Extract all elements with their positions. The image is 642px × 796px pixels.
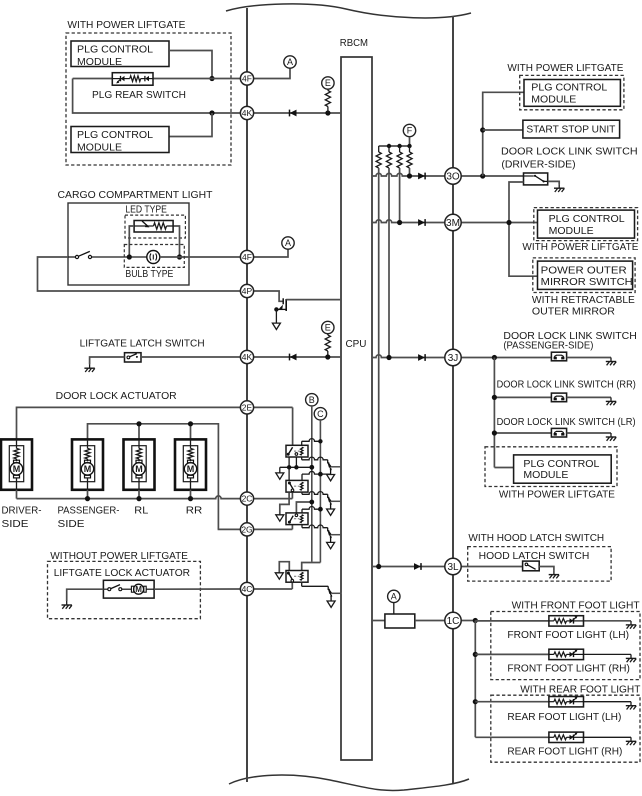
junction dot [209, 76, 214, 81]
node E (top) [322, 77, 334, 89]
RBCM sheet bottom cut curve [229, 775, 469, 790]
connector 2C [240, 492, 253, 505]
wire array drop 1 (to 3L) [378, 168, 380, 567]
svg-text:(DRIVER-SIDE): (DRIVER-SIDE) [501, 160, 575, 171]
wire switch to ground (driver-side) [548, 181, 560, 184]
wire 4K row to CPU [254, 112, 341, 114]
wire K2 pin to ground bus [288, 467, 290, 480]
svg-text:M: M [84, 464, 92, 474]
svg-text:MODULE: MODULE [523, 470, 568, 481]
diode D3 (3O) [418, 173, 425, 180]
wire 4C extension to relay K4 [254, 588, 293, 590]
hood latch switch SW8 [523, 561, 540, 571]
svg-text:M: M [135, 585, 142, 594]
svg-text:RR: RR [186, 506, 203, 517]
svg-text:PLG REAR SWITCH: PLG REAR SWITCH [92, 90, 186, 101]
svg-text:4F: 4F [242, 252, 252, 262]
transistor Q2 [327, 460, 341, 481]
wire C elbow to K4 coil [302, 563, 321, 571]
wire array drop 4 (to 3O) [409, 168, 411, 176]
wire latch switch to 4K [141, 356, 240, 358]
wire hood latch to ground [539, 567, 554, 571]
wire switch to bulb [92, 256, 147, 258]
svg-text:PLG CONTROL: PLG CONTROL [523, 459, 599, 470]
right connector busbar [452, 16, 454, 783]
ground (triangle) K4 stub [275, 573, 283, 579]
wire RH to ground [584, 653, 632, 655]
svg-text:M: M [135, 464, 143, 474]
svg-text:FRONT FOOT LIGHT (RH): FRONT FOOT LIGHT (RH) [507, 664, 630, 675]
svg-text:(PASSENGER-SIDE): (PASSENGER-SIDE) [503, 341, 593, 352]
node E (mid) [322, 321, 334, 333]
svg-text:WITH POWER LIFTGATE: WITH POWER LIFTGATE [499, 489, 615, 500]
PLG rear switch SW1 [112, 73, 153, 86]
svg-text:WITH REAR FOOT LIGHT: WITH REAR FOOT LIGHT [520, 685, 641, 696]
wire 2E drop to relay K1 [292, 407, 294, 445]
front foot light (RH) lamp [549, 649, 584, 659]
svg-text:WITHOUT POWER LIFTGATE: WITHOUT POWER LIFTGATE [50, 551, 188, 562]
door lock actuator M1 (driver-side) [1, 439, 32, 489]
wire LH to ground [584, 620, 632, 622]
connector 2E [240, 401, 253, 414]
wire 2C extension to relay K2 [254, 498, 293, 500]
connector 3L [445, 558, 461, 574]
resistor R-E1 [325, 91, 330, 107]
cargo compartment light box [68, 203, 189, 285]
diode D1 (4K row) [290, 110, 297, 117]
svg-text:1C: 1C [447, 616, 460, 627]
dashed box hood latch switch [468, 547, 611, 582]
svg-text:LED TYPE: LED TYPE [125, 205, 167, 216]
wire PLG control module 2 to node 4K [169, 113, 212, 137]
svg-text:3L: 3L [447, 562, 459, 573]
node A (cargo) [282, 237, 294, 249]
connector 4P [240, 284, 253, 297]
wire 1C row right [461, 620, 475, 622]
svg-text:M: M [13, 464, 21, 474]
box PLG CONTROL MODULE (right mid) [538, 210, 635, 238]
box START STOP UNIT [523, 120, 620, 138]
connector 4F (top) [240, 72, 253, 85]
ground (chassis) driver-side switch [554, 184, 564, 192]
svg-text:WITH HOOD LATCH SWITCH: WITH HOOD LATCH SWITCH [468, 533, 604, 544]
wire K2 coil high to C / Q2 emitter tie [301, 474, 303, 480]
svg-text:OUTER MIRROR: OUTER MIRROR [532, 306, 615, 317]
wire to ground (passenger) [567, 357, 611, 359]
wire K2 pad pin to ground stub [280, 493, 289, 515]
connector 3M [445, 214, 461, 230]
svg-text:RL: RL [134, 506, 148, 517]
node C [314, 408, 326, 420]
wire 2E row [17, 407, 293, 439]
svg-text:M: M [187, 464, 195, 474]
door lock link switch (driver-side) SW4 [524, 173, 548, 185]
svg-text:C: C [317, 409, 324, 419]
connector 1C [445, 612, 461, 628]
svg-text:A: A [287, 57, 293, 67]
svg-text:4P: 4P [242, 286, 253, 296]
svg-text:FRONT FOOT LIGHT (LH): FRONT FOOT LIGHT (LH) [507, 630, 629, 641]
wire C to K3 coil [301, 509, 303, 513]
illumination block [385, 614, 415, 628]
wire bulb to 4F [160, 256, 241, 258]
resistor R-E2 [327, 334, 329, 335]
CPU box U1 [341, 57, 372, 760]
dashed box WITHOUT POWER LIFTGATE [48, 561, 201, 618]
diode D2 (4K row 2) [290, 354, 297, 361]
foot light branch vertical [474, 621, 476, 738]
svg-text:WITH POWER LIFTGATE: WITH POWER LIFTGATE [507, 63, 623, 74]
connector 3O [445, 168, 461, 184]
box PLG CONTROL MODULE (right bottom) [514, 455, 612, 483]
wire rear foot LH row [475, 701, 549, 703]
wire 3L row right [461, 566, 522, 568]
svg-text:WITH POWER LIFTGATE: WITH POWER LIFTGATE [67, 20, 185, 31]
svg-text:PLG CONTROL: PLG CONTROL [77, 130, 153, 141]
svg-text:DRIVER-: DRIVER- [2, 506, 42, 517]
wire to start stop unit [483, 129, 523, 131]
wire LED left leg [129, 226, 134, 257]
door lock link switch (LR) SW7 [551, 428, 566, 437]
wire F stem [409, 137, 411, 146]
rear foot light (LH) lamp [549, 697, 584, 707]
svg-text:3M: 3M [446, 218, 460, 229]
ground (triangle) at Q1 source [272, 323, 280, 329]
svg-text:DOOR LOCK LINK SWITCH (LR): DOOR LOCK LINK SWITCH (LR) [497, 417, 636, 428]
wire K1 coil low to Q2 [301, 457, 303, 460]
bulb lamp [147, 251, 160, 264]
box PLG CONTROL MODULE (right top) [524, 80, 620, 107]
wire 3M row from CPU [372, 220, 445, 223]
junction dot E pull-up [325, 110, 330, 115]
wire CPU to illumination module [372, 620, 385, 622]
svg-text:4K: 4K [242, 352, 253, 362]
dashed box rear foot light [491, 695, 640, 762]
wire latch switch to ground [90, 357, 125, 364]
junction dot at source [274, 307, 278, 311]
wire 2G extension to relay K3 [254, 528, 293, 530]
diode D5 (3J) [418, 354, 425, 361]
wire 4F row left segment [73, 78, 112, 80]
liftgate latch switch SW3 [125, 353, 142, 362]
connector 4K (latch) [240, 350, 253, 363]
svg-text:MODULE: MODULE [531, 95, 576, 106]
wire 2C bus (actuator bottoms) [17, 496, 241, 499]
wire 2G row [218, 528, 241, 530]
wire actuator to ground [67, 589, 104, 601]
transistor Q4 [327, 528, 341, 549]
svg-text:B: B [309, 395, 315, 405]
svg-text:2E: 2E [242, 402, 253, 412]
wire LED right leg [175, 226, 180, 257]
svg-text:PLG CONTROL: PLG CONTROL [531, 82, 607, 93]
wire rear LH to ground [584, 701, 632, 703]
wire C vertical [319, 420, 321, 563]
LED lamp unit [134, 221, 174, 233]
svg-text:DOOR LOCK LINK SWITCH: DOOR LOCK LINK SWITCH [501, 146, 638, 157]
svg-text:E: E [325, 78, 331, 88]
wire 3J branch vertical [493, 358, 495, 468]
svg-text:DOOR LOCK LINK SWITCH (RR): DOOR LOCK LINK SWITCH (RR) [497, 380, 636, 391]
junction dots actuator top bus [136, 421, 141, 426]
wire switch branch down to 3M circuits [509, 182, 538, 276]
wire 3O row from CPU [372, 173, 445, 176]
svg-text:SIDE: SIDE [2, 519, 29, 530]
wire B to K3 contact [296, 502, 311, 513]
actuator top bus [88, 424, 219, 530]
svg-text:PLG CONTROL: PLG CONTROL [549, 214, 625, 225]
svg-text:PLG CONTROL: PLG CONTROL [77, 44, 153, 55]
wire K1 contact pins to ground bus [288, 457, 290, 467]
rear foot light (RH) lamp [549, 732, 584, 742]
svg-text:4F: 4F [242, 74, 252, 84]
ground (triangle) K2 stub [276, 515, 284, 521]
svg-text:PASSENGER-: PASSENGER- [58, 506, 120, 517]
wire drain to CPU [286, 299, 341, 301]
wire to ground (RR) [567, 396, 611, 398]
node F [403, 124, 415, 136]
svg-text:3J: 3J [448, 353, 459, 364]
wire 3M row right [461, 222, 537, 224]
svg-text:MODULE: MODULE [77, 142, 122, 153]
svg-text:F: F [407, 126, 413, 136]
svg-text:REAR FOOT LIGHT (RH): REAR FOOT LIGHT (RH) [507, 747, 622, 758]
junction dot E2 pull-up [325, 354, 330, 359]
wire K3 coil low to Q4 [301, 525, 303, 528]
svg-text:4C: 4C [242, 584, 253, 594]
relay K2 [286, 480, 308, 492]
connector 2G [240, 523, 253, 536]
wire 3J row right [461, 357, 551, 359]
wire cargo light to 4P row [38, 257, 241, 291]
svg-text:A: A [391, 592, 397, 602]
svg-text:START STOP UNIT: START STOP UNIT [526, 125, 616, 136]
svg-text:WITH FRONT FOOT LIGHT: WITH FRONT FOOT LIGHT [512, 601, 641, 612]
wire 4K row 2 to CPU [254, 356, 341, 358]
resistor R3 array 2 [388, 146, 390, 152]
svg-text:MODULE: MODULE [549, 226, 594, 237]
svg-text:RBCM: RBCM [340, 38, 368, 49]
diode D4 (3M) [418, 219, 425, 226]
wire ground bus drop [279, 467, 281, 473]
resistor R4 array 3 [399, 146, 401, 152]
relay K4 [286, 571, 308, 583]
transistor Q5 [327, 586, 341, 607]
wire 4F row right segment to 4F [154, 78, 241, 80]
transistor Q3 [327, 494, 341, 515]
connector 4K (top) [240, 106, 253, 119]
wire array drop 2 (to 3J) [388, 168, 390, 358]
wire RR row [494, 396, 551, 398]
dashed box LED TYPE [125, 215, 185, 238]
relay ground bus [280, 466, 312, 468]
ground (chassis) at latch switch [84, 364, 94, 372]
wire 3O row right [461, 175, 523, 177]
resistor R5 array 4 [409, 146, 411, 152]
wire to ground (LR) [567, 432, 611, 434]
box PLG CONTROL MODULE (upper) [71, 41, 169, 67]
RBCM sheet top cut curve [226, 4, 471, 18]
wire front foot RH row [475, 653, 549, 655]
wire K4 coil low to Q5 [301, 583, 303, 586]
wire B vertical [311, 406, 313, 562]
wire K1 coil high to C [301, 441, 303, 445]
liftgate lock actuator M5 [103, 580, 154, 598]
svg-text:LIFTGATE LOCK ACTUATOR: LIFTGATE LOCK ACTUATOR [54, 568, 190, 579]
box POWER OUTER MIRROR SWITCH [538, 261, 633, 289]
dashed box PLG control module (right mid) [534, 208, 638, 241]
node A (top) [284, 56, 296, 68]
dashed box power outer mirror switch [533, 258, 635, 293]
wire block to 1C [415, 620, 445, 622]
dashed box PLG control module (right top) [520, 75, 624, 109]
ground (chassis) liftgate lock actuator [62, 601, 72, 609]
svg-text:CPU: CPU [346, 339, 367, 350]
wire LR row [494, 432, 551, 434]
relay K1 [286, 445, 308, 457]
svg-text:2C: 2C [242, 494, 253, 504]
door lock link switch (passenger) SW5 [551, 352, 566, 361]
svg-text:SIDE: SIDE [58, 519, 85, 530]
wire 4F to node A (top) [254, 68, 290, 78]
wire rear foot RH row [475, 736, 549, 738]
wire 3J row from CPU [372, 355, 445, 358]
dashed box PLG control module (right bottom) [485, 447, 617, 487]
junction dots LED legs [127, 254, 132, 259]
node A (bottom) [388, 590, 400, 602]
svg-text:LIFTGATE LATCH SWITCH: LIFTGATE LATCH SWITCH [80, 338, 205, 349]
connector 3J [445, 349, 461, 365]
dashed box front foot light [491, 612, 640, 680]
box PLG CONTROL MODULE (lower) [71, 127, 169, 153]
wire K2 coil low to Q3 [301, 493, 303, 495]
wire K4 ground stub [279, 562, 289, 573]
wire front foot LH row [475, 620, 549, 622]
svg-text:REAR FOOT LIGHT (LH): REAR FOOT LIGHT (LH) [507, 712, 621, 723]
cargo switch SW2 [68, 251, 92, 258]
relay K3 [286, 513, 308, 525]
wire source to ground [275, 309, 277, 323]
svg-text:2G: 2G [241, 524, 252, 534]
resistor bus [379, 145, 410, 147]
svg-text:3O: 3O [446, 172, 460, 183]
dashed box BULB TYPE [124, 245, 184, 268]
svg-text:POWER OUTER: POWER OUTER [541, 266, 627, 277]
door lock actuator M4 (RR) [175, 439, 206, 489]
door lock actuator M3 (RL) [124, 439, 155, 489]
connector 4C [240, 582, 253, 595]
left connector busbar [246, 8, 248, 782]
stubs actuator bottoms to 2C bus [16, 490, 18, 499]
diode D6 (3L) [414, 563, 421, 570]
svg-text:E: E [325, 323, 331, 333]
ground (triangle) relay bus [276, 473, 284, 479]
door lock actuator M2 (passenger-side) [72, 439, 103, 489]
svg-text:DOOR LOCK ACTUATOR: DOOR LOCK ACTUATOR [56, 391, 177, 402]
wire array drop 3 (to 3M) [399, 168, 401, 223]
junction dot on 4K row [209, 110, 214, 115]
dashed box WITH POWER LIFTGATE (top-left) [66, 33, 231, 165]
svg-text:4K: 4K [242, 108, 253, 118]
wire rear RH to ground [584, 736, 632, 738]
wire A stem [393, 603, 395, 614]
svg-text:WITH POWER LIFTGATE: WITH POWER LIFTGATE [522, 242, 638, 253]
svg-text:A: A [285, 238, 291, 248]
resistor R2 array 1 [378, 146, 380, 152]
node B [306, 394, 318, 406]
connector 4F (cargo) [240, 250, 253, 263]
wire to PLG control module (bottom) [494, 467, 513, 469]
wire 4F to node A (cargo) [254, 249, 288, 257]
wire actuator to 4C [154, 588, 240, 590]
front foot light (LH) lamp [549, 616, 584, 626]
svg-text:CARGO COMPARTMENT LIGHT: CARGO COMPARTMENT LIGHT [58, 190, 214, 201]
svg-text:MODULE: MODULE [77, 57, 122, 68]
wire left loop down to 4K row [73, 79, 241, 114]
door lock link switch (RR) SW6 [551, 393, 566, 402]
svg-text:BULB TYPE: BULB TYPE [125, 269, 173, 280]
stub RR actuator top [190, 424, 192, 440]
svg-text:WITH RETRACTABLE: WITH RETRACTABLE [532, 295, 635, 306]
MOSFET Q1 [276, 298, 286, 311]
wire PLG control module 1 to node 4F [169, 51, 212, 79]
wire 4P to transistor gate [254, 291, 283, 301]
svg-text:MIRROR SWITCH: MIRROR SWITCH [541, 277, 633, 288]
wire to PLG control module (top) [483, 92, 524, 176]
wire 3L row from CPU [372, 566, 445, 568]
stub RL actuator top [138, 424, 140, 440]
